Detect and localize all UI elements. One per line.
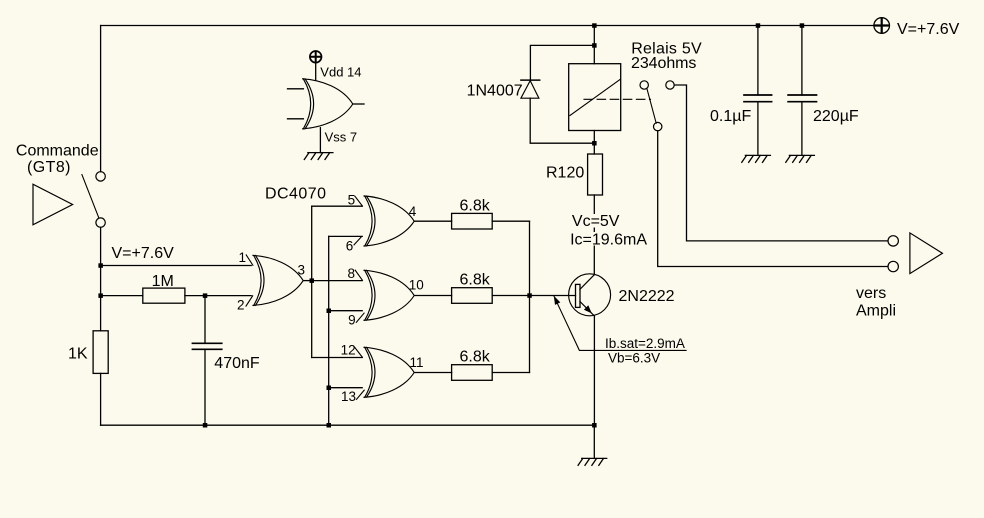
wire Vdd to gate xyxy=(315,61,317,80)
wire pin 12 xyxy=(312,357,363,359)
ground C1 xyxy=(742,155,771,162)
svg-text:3: 3 xyxy=(298,262,306,277)
pin 2 slash xyxy=(246,296,253,306)
wire resistor bottom to bus xyxy=(492,372,529,374)
pin 13 slash xyxy=(357,390,365,399)
wire pin 3 output xyxy=(303,280,312,282)
svg-text:Vb=6.3V: Vb=6.3V xyxy=(608,350,660,365)
svg-text:Ib.sat=2.9mA: Ib.sat=2.9mA xyxy=(605,336,685,351)
svg-text:13: 13 xyxy=(341,389,356,404)
ground C2 xyxy=(786,155,815,162)
wire relay to R120 xyxy=(593,131,595,155)
pin 1 slash xyxy=(246,255,253,265)
wire resistor middle to bus xyxy=(492,295,529,297)
xor gate U1b input arc xyxy=(365,196,372,246)
output terminal circle bottom xyxy=(888,261,898,271)
commande input triangle xyxy=(33,184,73,225)
diode D1 triangle xyxy=(521,81,539,99)
wire 470nF to bottom rail xyxy=(204,349,206,425)
wire right bus vertical xyxy=(529,221,531,372)
wire Vss to ground xyxy=(319,128,321,153)
power symbol Vdd xyxy=(310,51,322,63)
svg-text:Ampli: Ampli xyxy=(856,303,896,320)
wire left vertical to switch xyxy=(100,26,102,172)
wire switch to node V xyxy=(100,227,102,330)
pin 6 slash xyxy=(354,237,362,245)
wire 1M to XOR pin 2 xyxy=(185,295,251,297)
relay K1 coil box xyxy=(569,64,621,131)
resistor 1M body xyxy=(143,288,185,303)
svg-text:Vc=5V: Vc=5V xyxy=(572,213,620,230)
svg-text:Vdd 14: Vdd 14 xyxy=(320,64,361,79)
wire pin 10 to resistor xyxy=(414,295,451,297)
ground transistor emitter xyxy=(578,458,607,465)
wire pin 8 xyxy=(312,280,363,282)
xor gate U1a input arc xyxy=(254,255,261,305)
wire pin 5 xyxy=(312,205,363,207)
wire node to 1M xyxy=(101,295,143,297)
capacitor C1 plates xyxy=(744,95,772,102)
resistor 6.8k middle body xyxy=(452,288,493,304)
wire rail to relay xyxy=(593,26,595,64)
transistor emitter arrowhead xyxy=(584,305,592,313)
svg-text:9: 9 xyxy=(348,312,356,327)
wire top rail V=+7.6V xyxy=(101,25,874,27)
transistor Q1 collector diagonal xyxy=(580,275,594,290)
pin 8 slash xyxy=(355,270,362,280)
power symbol V+ right xyxy=(874,18,890,34)
svg-text:234ohms: 234ohms xyxy=(631,55,696,72)
wire emitter ground stub xyxy=(593,425,595,458)
capacitor C1 bottom wire xyxy=(757,102,759,156)
svg-text:10: 10 xyxy=(409,277,424,292)
capacitor C1 0.1uF top wire xyxy=(757,26,759,96)
wire relay common to output bottom xyxy=(658,131,888,267)
svg-text:470nF: 470nF xyxy=(214,355,260,372)
capacitor 470nF plates xyxy=(192,343,221,349)
svg-text:6.8k: 6.8k xyxy=(460,272,491,289)
xor gate U1c input arc xyxy=(365,270,372,320)
diode D1 1N4007 top wire xyxy=(530,45,594,80)
svg-text:1M: 1M xyxy=(152,273,174,290)
xor gate U1 power body xyxy=(303,79,353,129)
resistor 6.8k bottom body xyxy=(452,365,493,381)
transistor Q1 base bar xyxy=(576,284,581,307)
svg-text:DC4070: DC4070 xyxy=(265,185,326,202)
switch commande circle bottom xyxy=(96,218,105,227)
svg-text:6: 6 xyxy=(346,238,354,253)
relay switch common circle bottom xyxy=(654,122,662,130)
label text background patches xyxy=(564,214,648,246)
svg-text:Vss 7: Vss 7 xyxy=(325,130,358,145)
diode D1 cathode bar xyxy=(521,79,540,81)
switch commande circle top xyxy=(96,172,105,181)
svg-text:R120: R120 xyxy=(546,165,584,182)
svg-text:1: 1 xyxy=(238,250,246,265)
switch commande lever xyxy=(82,175,99,218)
wire bus A vertical xyxy=(311,206,313,357)
wire emitter to bottom rail xyxy=(593,316,595,425)
svg-text:220µF: 220µF xyxy=(813,108,859,125)
wire bus B vertical xyxy=(328,236,330,425)
resistor 1K body xyxy=(93,331,108,374)
relay switch throw circle right xyxy=(666,81,674,89)
svg-text:1N4007: 1N4007 xyxy=(467,82,523,99)
resistor 6.8k top body xyxy=(452,213,493,229)
junction dots xyxy=(98,263,103,268)
pin 12 slash xyxy=(355,347,363,357)
svg-text:5: 5 xyxy=(348,192,356,207)
pin 9 slash xyxy=(356,313,364,322)
svg-text:2N2222: 2N2222 xyxy=(619,288,675,305)
wire relay throw to output top xyxy=(674,85,888,241)
svg-text:Commande: Commande xyxy=(16,142,99,159)
xor gate U1 power input arc xyxy=(303,79,310,129)
relay switch lever xyxy=(647,89,656,124)
diode D1 bottom wire xyxy=(530,98,594,143)
pin 5 slash xyxy=(355,196,363,206)
xor gate U1a body xyxy=(253,255,303,305)
svg-text:V=+7.6V: V=+7.6V xyxy=(112,245,175,262)
xor gate U1d body xyxy=(364,347,414,397)
relay K1 coil diagonal xyxy=(570,80,620,116)
xor gate U1 power input stubs xyxy=(288,89,304,119)
transistor Q1 2N2222 circle xyxy=(569,274,611,316)
capacitor C2 plates xyxy=(788,95,816,102)
svg-text:8: 8 xyxy=(347,266,355,281)
svg-text:vers: vers xyxy=(856,285,886,302)
wire base of transistor xyxy=(530,295,576,297)
svg-text:12: 12 xyxy=(341,343,356,358)
wire 1K to bottom rail xyxy=(100,373,102,425)
ground Vss xyxy=(304,153,333,160)
xor gate U1 power output stub xyxy=(353,103,364,105)
svg-text:Ic=19.6mA: Ic=19.6mA xyxy=(570,232,647,249)
wire collector vertical xyxy=(593,195,595,275)
annotation arrowhead Ib xyxy=(554,296,561,305)
svg-text:2: 2 xyxy=(237,298,245,313)
wire node to XOR pin 1 xyxy=(101,265,252,267)
svg-text:6.8k: 6.8k xyxy=(460,349,491,366)
resistor R120 body xyxy=(588,154,603,195)
wire pin 6 xyxy=(329,235,363,237)
svg-text:6.8k: 6.8k xyxy=(460,197,491,214)
xor gate U1b body xyxy=(364,196,414,246)
wire resistor top to bus xyxy=(492,220,529,222)
wire pin 4 to resistor xyxy=(414,220,451,222)
svg-text:(GT8): (GT8) xyxy=(27,159,71,176)
capacitor C2 220uF top wire xyxy=(801,26,803,96)
xor gate U1d input arc xyxy=(365,347,372,397)
svg-text:V=+7.6V: V=+7.6V xyxy=(897,21,960,38)
annotation leader Ib xyxy=(554,296,686,351)
transistor Q1 emitter diagonal xyxy=(580,302,594,317)
svg-text:11: 11 xyxy=(410,355,424,370)
svg-text:0.1µF: 0.1µF xyxy=(710,108,751,125)
amplifier triangle vers Ampli xyxy=(910,233,943,274)
svg-text:1K: 1K xyxy=(68,346,88,363)
relay switch pole circle xyxy=(640,81,648,89)
capacitor C2 bottom wire xyxy=(801,102,803,156)
relay K1 actuation dashed line xyxy=(584,98,651,100)
wire node to 470nF xyxy=(204,296,206,344)
wire pin 13 xyxy=(329,387,363,389)
wire bottom rail xyxy=(101,424,595,426)
svg-text:4: 4 xyxy=(409,204,417,219)
output terminal circle top xyxy=(888,236,898,246)
wire pin 9 xyxy=(329,310,363,312)
wire pin 11 to resistor xyxy=(414,372,451,374)
xor gate U1c body xyxy=(364,270,414,320)
